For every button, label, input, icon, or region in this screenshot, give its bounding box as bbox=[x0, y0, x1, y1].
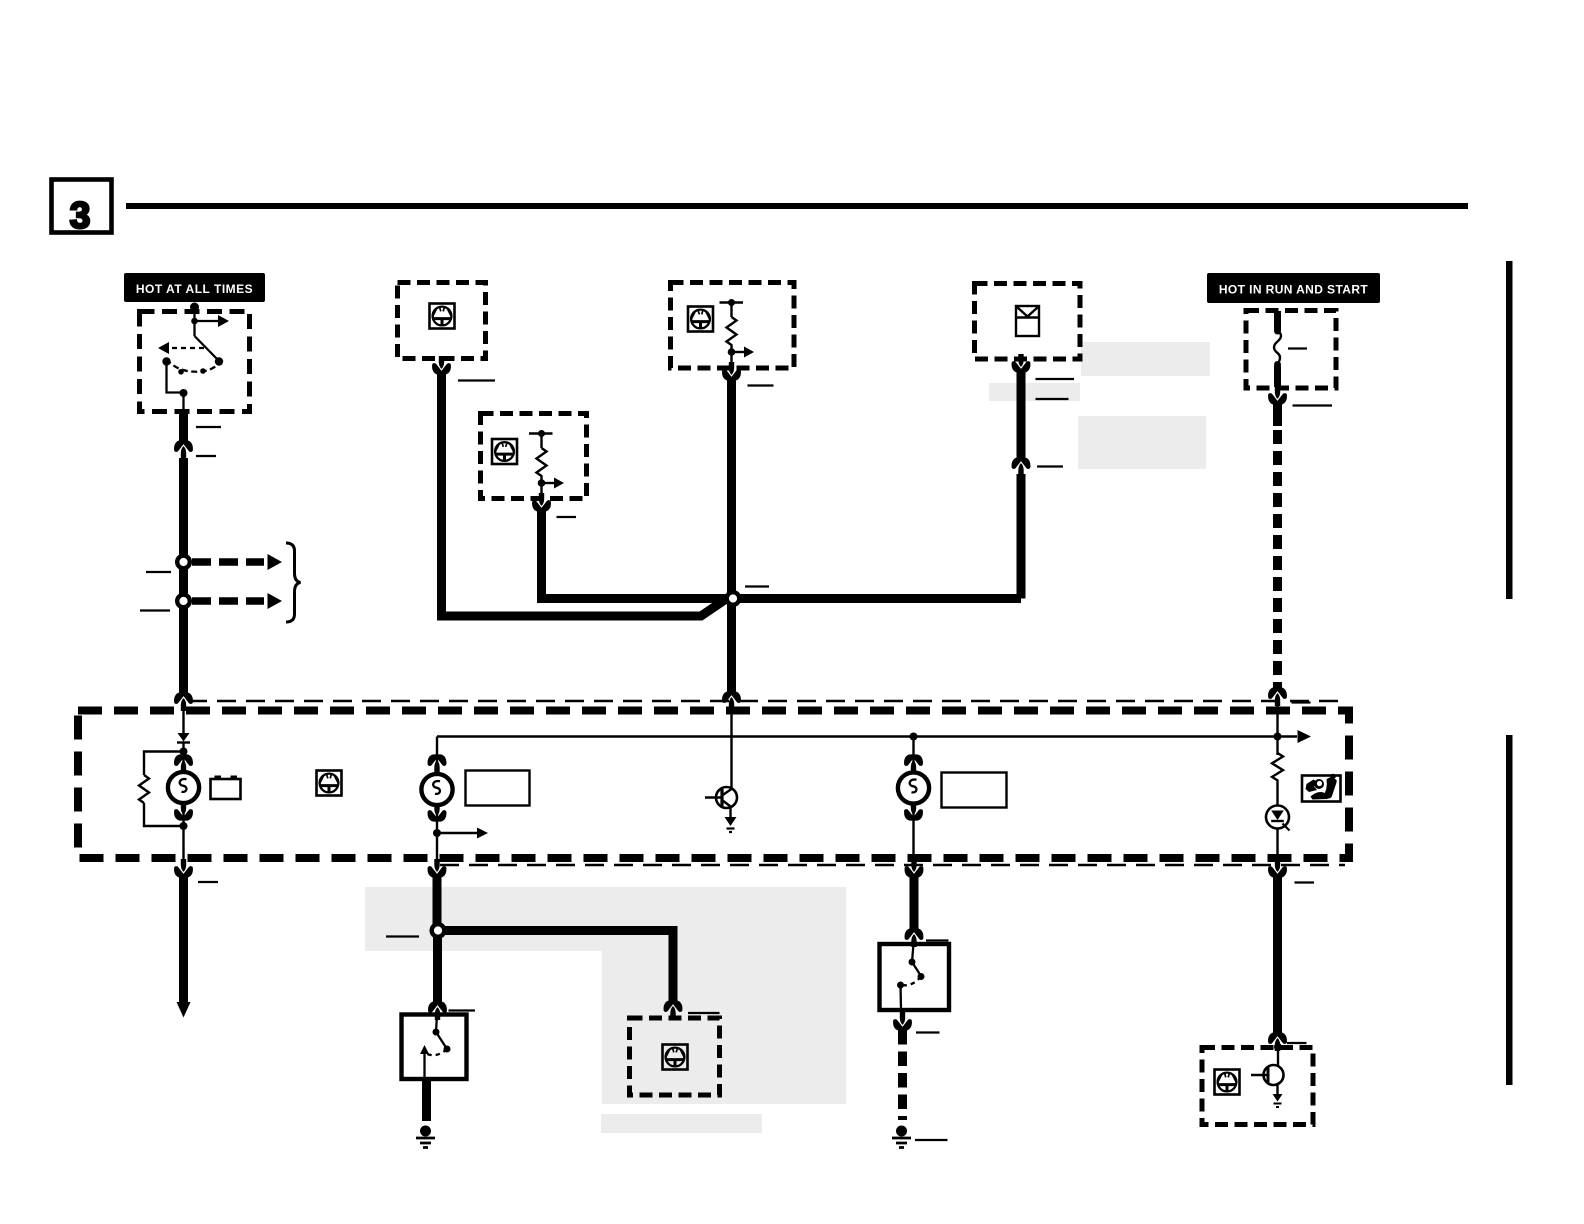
svg-text:3: 3 bbox=[70, 195, 91, 236]
svg-text:HOT AT ALL TIMES: HOT AT ALL TIMES bbox=[136, 282, 253, 296]
svg-text:HOT IN RUN AND START: HOT IN RUN AND START bbox=[1219, 283, 1369, 297]
